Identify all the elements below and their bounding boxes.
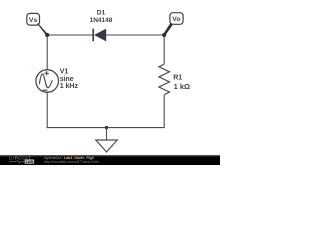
resistor R1: [159, 64, 170, 95]
node Vo flag: [163, 13, 183, 36]
svg-text:1 kHz: 1 kHz: [60, 83, 79, 90]
wire top horizontal right (diode anode to right junction): [106, 34, 164, 36]
node B junction dot (Vo net): [162, 33, 166, 37]
svg-text:D1: D1: [97, 10, 106, 17]
watermark bar: [0, 155, 220, 165]
wire right vertical (junction to resistor): [163, 35, 165, 64]
svg-text:1 kΩ: 1 kΩ: [174, 82, 190, 91]
svg-text:R1: R1: [173, 75, 182, 82]
wire right vertical (resistor to bottom corner): [163, 95, 165, 128]
svg-text:sine: sine: [60, 76, 74, 83]
svg-text:Vo: Vo: [172, 16, 180, 23]
diode D1: [93, 29, 106, 42]
wire left vertical (top junction down to source): [46, 35, 48, 70]
svg-text:http:∕∕circuitlab.com∕c∕877a64: http:∕∕circuitlab.com∕c∕877a64c2e6b: [44, 160, 99, 164]
ground: [96, 126, 117, 152]
svg-text:LAB: LAB: [26, 160, 34, 164]
wire bottom horizontal: [47, 127, 165, 129]
wire left vertical (source to bottom corner): [46, 92, 48, 128]
node Vs flag: [27, 13, 48, 35]
svg-text:Vs: Vs: [29, 17, 38, 24]
node A junction dot (Vs net): [45, 33, 49, 37]
svg-text:V1: V1: [60, 68, 69, 75]
svg-text:1N4148: 1N4148: [90, 17, 113, 24]
CircuitLab logo: [9, 156, 34, 164]
wire top horizontal left (junction to diode cathode): [47, 34, 93, 36]
voltage source V1: [36, 70, 59, 93]
